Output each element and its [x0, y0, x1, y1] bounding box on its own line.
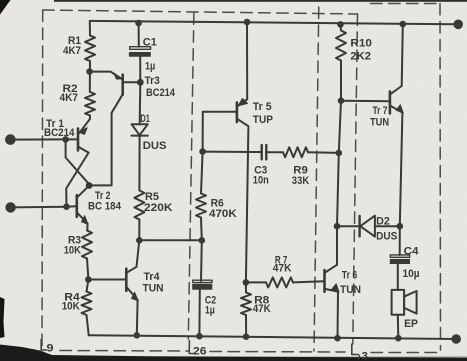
svg-text:Tr 6: Tr 6 [342, 270, 357, 282]
wire: bottom ground rail [89, 335, 457, 339]
svg-text:3: 3 [362, 351, 369, 361]
wire: C1 top lead from rail [138, 23, 140, 47]
scan artifact: top edge line [54, 0, 467, 2]
wire: EP bottom to ground rail [397, 315, 400, 338]
node: ground-Tr6 [334, 335, 341, 342]
node: R5/Tr4 collector [136, 237, 143, 244]
wire: R7/R8 node lead [246, 281, 266, 283]
node: rail-Tr5 junction [244, 19, 251, 26]
capacitor C1 top plate [130, 47, 151, 50]
wire: Tr7 base lead [341, 100, 390, 103]
resistor R9 [283, 147, 308, 157]
wire: R4 bottom to ground rail [87, 315, 89, 335]
resistor R10 [336, 31, 346, 61]
resistor R3 [82, 231, 92, 259]
wire: Tr2 base lead [67, 205, 77, 208]
wire: R10 column down through nodes [337, 101, 341, 265]
transistor Tr3 base bar [121, 75, 124, 95]
node: R9/R10 column [336, 150, 343, 157]
wire: R6 top to Tr5 base node [201, 152, 203, 194]
wire: Tr4 emitter diagonal [127, 287, 138, 335]
wire: Tr5 collector down to R7/R8 node [237, 119, 248, 283]
scan artifact: bottom band [0, 345, 467, 361]
node: R10/Tr7 base [338, 97, 345, 104]
wire: R10 bottom to Tr7 base node [340, 61, 342, 101]
dashed bottom edge box 3 [371, 352, 438, 354]
capacitor C1 bottom plate [129, 52, 150, 56]
svg-text:26: 26 [193, 346, 207, 358]
wire: Tr7 emitter line to C4 [399, 226, 401, 255]
node: R6 bottom [199, 237, 206, 244]
svg-text:10K: 10K [64, 245, 81, 257]
wire: R1 top lead from rail [89, 21, 91, 36]
node: Tr1 base [62, 136, 69, 143]
wire: Tr4 collector to R5 node [127, 240, 140, 272]
wire: R10 top lead from rail [340, 24, 343, 30]
svg-text:10K: 10K [62, 300, 80, 312]
wire: R3 to R4 node [87, 259, 88, 280]
resistor R1 [85, 36, 95, 62]
svg-text:DUS: DUS [376, 231, 397, 243]
wire: D1 cathode to R5 [138, 136, 140, 191]
svg-text:1µ: 1µ [145, 61, 155, 73]
svg-text:R10: R10 [350, 37, 372, 49]
wire: node to R8 top [245, 282, 247, 292]
wire: cross-coupling Tr1 base to Tr2 collector node [66, 139, 90, 184]
resistor R7 [266, 277, 293, 287]
capacitor C4 top plate [390, 255, 409, 257]
svg-text:47K: 47K [253, 303, 271, 315]
terminal bottom right [451, 334, 461, 344]
wire: Tr2 collector diagonal [77, 186, 89, 198]
wire: node to D1 anode [139, 82, 142, 124]
resistor R8 [241, 293, 251, 316]
input terminal 2 [6, 203, 15, 212]
dashed border boxes 9+26 top edge [43, 10, 358, 14]
wire: top supply rail [90, 21, 458, 24]
dashed border box 3 right edge [439, 4, 442, 351]
node: D2/Tr7 emitter [397, 223, 404, 230]
scan artifact: top-left corner triangle [0, 0, 11, 15]
wire: Tr5 base lead to node [203, 112, 237, 152]
diode D1 [132, 124, 148, 135]
node: ground-R8 [243, 333, 250, 340]
svg-text:10µ: 10µ [403, 268, 420, 280]
resistor R4 [82, 292, 92, 316]
svg-text:Tr 7: Tr 7 [373, 105, 388, 117]
Tr2 emitter arrow [82, 216, 88, 225]
scan crease line bottom [0, 357, 467, 358]
wire: Tr6 collector diagonal [325, 265, 337, 273]
svg-text:Tr3: Tr3 [145, 75, 160, 87]
wire: cross-coupling Tr2 base to Tr1 collector [66, 153, 88, 207]
dashed border box 26 right edge [353, 14, 358, 344]
wire: R8 bottom to ground rail [245, 315, 247, 337]
wire: Tr7 collector to supply rail [390, 24, 403, 94]
dashed border box 3 top edge [371, 3, 440, 5]
node: rail-Tr7 junction [400, 21, 407, 28]
wire: C1 to Tr3 base node [139, 57, 141, 83]
wire: Tr1 base lead [66, 138, 78, 140]
wire: R5/Tr4 node to R6 node [139, 239, 202, 241]
svg-text:TUN: TUN [340, 284, 361, 296]
capacitor C2 bottom plate [193, 284, 213, 289]
svg-text:C4: C4 [404, 246, 420, 258]
svg-text:220K: 220K [144, 202, 173, 214]
svg-text:4K7: 4K7 [60, 92, 79, 104]
wire: Tr6 collector node to D2 cathode [337, 225, 359, 227]
svg-text:Tr 5: Tr 5 [253, 101, 272, 113]
node: C1/D1/Tr3 base [137, 79, 144, 86]
speaker EP cone [404, 291, 417, 314]
Tr6 emitter arrow [332, 284, 339, 293]
scan artifact: left edge strip [0, 297, 5, 338]
svg-text:BC214: BC214 [146, 87, 176, 99]
svg-text:BC214: BC214 [44, 127, 75, 139]
wire: R7 to Tr6 base [293, 281, 324, 282]
capacitor C3 left plate [261, 145, 263, 160]
wire: R6 bottom lead [200, 218, 203, 241]
wire: R3/R4 node to Tr4 base [88, 279, 125, 281]
node: rail-R10 junction [337, 21, 344, 28]
svg-text:4K7: 4K7 [63, 45, 81, 57]
terminal top right [453, 20, 463, 30]
comma mark before 3 [358, 356, 361, 360]
node: R3/R4/Tr4 base [85, 276, 92, 283]
dashed border box 9 left edge [41, 10, 44, 348]
corner mark box 26 [189, 341, 193, 354]
Tr7 emitter arrow [396, 105, 403, 113]
wire: C3 to R9 [266, 151, 283, 153]
wire: Tr3 collector to Tr2 collector node [89, 94, 123, 186]
wire: input 2 to Tr2 base node [11, 206, 67, 209]
Tr3 emitter arrow [114, 73, 122, 79]
wire: Tr6 emitter diagonal [325, 289, 338, 338]
dashed divider line 9/26 [188, 13, 194, 339]
wire: Tr7 emitter diagonal [390, 106, 402, 227]
transistor Tr5 base bar [236, 103, 239, 122]
dashed border box 3 left edge [314, 7, 319, 351]
speaker EP body [392, 290, 405, 315]
wire: R2 bottom to Tr1 emitter [80, 116, 91, 133]
transistor Tr1 base bar [77, 129, 80, 151]
wire: input 1 to Tr1 base node [10, 138, 65, 140]
capacitor C2 top plate [193, 280, 212, 282]
wire: D2 anode to Tr7 emitter line [375, 225, 400, 227]
capacitor C3 right plate [265, 145, 267, 160]
node: D2/Tr6 collector [334, 223, 341, 230]
svg-text:33K: 33K [292, 175, 309, 187]
corner mark box 3 [352, 344, 359, 355]
node: ground-EP [395, 335, 402, 342]
corner mark box 9 [41, 340, 46, 351]
wire: R1 to R2 node [89, 61, 91, 92]
node: ground-C2 [196, 333, 203, 340]
node: rail-C1 junction [135, 20, 142, 27]
wire: C4 to EP speaker [397, 264, 399, 290]
svg-text:1µ: 1µ [205, 304, 215, 316]
svg-text:Tr4: Tr4 [144, 271, 161, 283]
svg-text:EP: EP [404, 318, 418, 330]
input terminal 1 [6, 135, 16, 145]
wire: node to R4 top [87, 280, 89, 292]
svg-text:TUN: TUN [143, 282, 164, 294]
svg-text:10n: 10n [253, 175, 269, 187]
node: ground-Tr4 [134, 332, 141, 339]
wire: Tr2 emitter diagonal [77, 213, 87, 231]
wire: R5 bottom to Tr4 collector node [138, 220, 140, 241]
transistor Tr2 base bar [76, 195, 79, 217]
svg-text:470K: 470K [209, 208, 237, 220]
svg-text:D2: D2 [376, 216, 390, 228]
wire: Tr3 emitter lead from R1/R2 node [90, 72, 123, 80]
node: R1/R2/Tr3 emitter [86, 68, 93, 75]
capacitor C4 bottom plate [390, 259, 410, 263]
node: Tr2 base [63, 203, 70, 210]
Tr5 emitter arrow [238, 99, 247, 106]
resistor R5 [134, 191, 144, 220]
transistor Tr4 base bar [125, 269, 128, 291]
diode D2 [358, 216, 360, 236]
wire: C2 bottom to ground rail [198, 289, 200, 336]
svg-text:BC 184: BC 184 [88, 201, 122, 213]
svg-text:TUP: TUP [253, 114, 273, 126]
svg-text:2K2: 2K2 [350, 50, 371, 62]
svg-text:47K: 47K [273, 263, 292, 275]
svg-text:9: 9 [47, 343, 54, 355]
wire: Tr3 base lead [123, 81, 140, 83]
resistor R2 [85, 92, 95, 116]
node: R7/R8/Tr5 collector [243, 279, 250, 286]
dashed bottom edge box 9 [60, 350, 188, 353]
node: Tr5 base/R6 top [199, 148, 206, 155]
svg-text:DUS: DUS [143, 140, 167, 152]
Tr1 emitter arrow [79, 128, 87, 135]
transistor Tr6 base bar [323, 270, 326, 292]
wire: R9 to R10 column node [308, 151, 339, 154]
wire: Tr5 base node to C3 [203, 151, 261, 153]
svg-text:C1: C1 [143, 37, 157, 49]
Tr4 emitter arrow [132, 292, 139, 301]
resistor R6 [196, 194, 206, 218]
wire: Tr1 collector diagonal [78, 147, 88, 153]
wire: Tr5 emitter from supply rail [238, 22, 248, 106]
node: Tr2 collector [86, 182, 93, 189]
wire: C2 top lead [200, 240, 203, 281]
svg-text:TUN: TUN [370, 117, 389, 129]
dashed bottom edge box 26 [210, 351, 345, 354]
transistor Tr7 base bar [389, 91, 392, 113]
svg-text:D1: D1 [140, 113, 150, 125]
